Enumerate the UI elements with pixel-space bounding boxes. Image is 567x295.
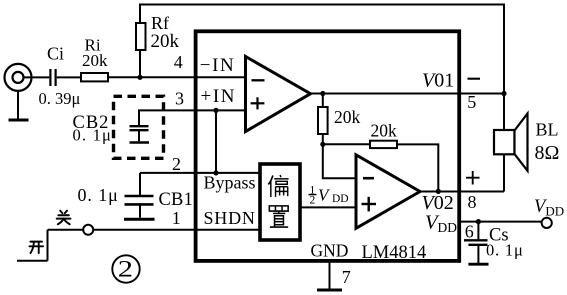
svg-text:DD: DD <box>332 193 349 205</box>
svg-text:0. 39μ: 0. 39μ <box>39 89 81 108</box>
svg-text:Ci: Ci <box>47 44 64 64</box>
svg-text:0. 1μ: 0. 1μ <box>73 126 113 145</box>
svg-text:2: 2 <box>118 256 133 282</box>
svg-text:1: 1 <box>172 208 181 228</box>
svg-text:20k: 20k <box>82 51 108 70</box>
svg-text:5: 5 <box>467 92 476 112</box>
svg-text:4: 4 <box>174 52 183 72</box>
svg-text:V01: V01 <box>422 69 454 91</box>
svg-text:V02: V02 <box>422 192 454 214</box>
svg-text:0. 1μ: 0. 1μ <box>78 185 119 205</box>
svg-text:BL: BL <box>536 120 559 140</box>
svg-text:8Ω: 8Ω <box>535 142 560 164</box>
svg-text:−IN: −IN <box>200 55 236 76</box>
svg-text:Rf: Rf <box>151 13 169 33</box>
svg-text:GND: GND <box>311 241 349 261</box>
svg-text:CB1: CB1 <box>159 190 194 210</box>
svg-text:6: 6 <box>465 221 474 241</box>
svg-text:7: 7 <box>342 267 351 287</box>
svg-text:3: 3 <box>175 88 184 108</box>
svg-text:SHDN: SHDN <box>204 208 256 228</box>
svg-text:20k: 20k <box>151 31 180 52</box>
svg-text:LM4814: LM4814 <box>362 243 427 263</box>
svg-text:20k: 20k <box>371 120 398 140</box>
svg-text:20k: 20k <box>334 107 361 127</box>
svg-text:+IN: +IN <box>201 86 237 107</box>
svg-text:8: 8 <box>468 192 477 212</box>
svg-text:Bypass: Bypass <box>204 173 256 193</box>
svg-text:2: 2 <box>172 154 181 174</box>
svg-text:2: 2 <box>310 195 316 207</box>
svg-text:0. 1μ: 0. 1μ <box>486 241 524 260</box>
